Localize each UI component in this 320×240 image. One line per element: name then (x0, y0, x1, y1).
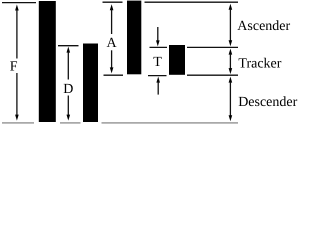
dimension arrow D bottom (points down) (67, 96, 71, 121)
baseline tick below A arrow (104, 74, 124, 76)
label Descender (238, 95, 297, 110)
right dimension line descender zone (double arrow) (229, 77, 233, 122)
svg-text:D: D (63, 82, 73, 97)
dimension arrow D top (points up) (67, 47, 71, 80)
baseline right segment (187, 74, 238, 76)
svg-text:T: T (153, 55, 162, 70)
dimension arrow T bottom outside (points up) (156, 77, 160, 95)
dimension arrow A bottom (points down) (110, 50, 114, 73)
svg-text:Descender: Descender (238, 95, 297, 110)
descender baseline left segment (gray) (2, 122, 34, 124)
ascender line right segment (145, 1, 239, 3)
dimension arrow F bottom (points down) (15, 73, 19, 121)
bar T (tracker/x-height glyph bar) (169, 45, 185, 75)
svg-text:Tracker: Tracker (238, 56, 281, 71)
label A (106, 36, 117, 51)
right dimension line tracker zone (double arrow) (229, 49, 233, 75)
tracker top tick at T (150, 46, 168, 48)
svg-text:Ascender: Ascender (237, 19, 290, 34)
dimension arrow A top (points up) (110, 4, 114, 34)
right dimension line ascender zone (double arrow) (229, 4, 233, 47)
tracker top line right segment (187, 46, 238, 48)
bar F (full height glyph bar) (39, 1, 56, 122)
dimension arrow T top outside (points down) (156, 27, 160, 46)
label F (10, 60, 18, 75)
descender baseline middle segment (gray) (60, 122, 81, 124)
dimension arrow F top (points up) (15, 5, 19, 59)
baseline tick at T (148, 75, 167, 77)
tick line above D arrow (58, 45, 79, 47)
ascender line left segment (2, 2, 36, 4)
svg-text:A: A (106, 36, 117, 51)
label D (63, 82, 73, 97)
label Tracker (238, 56, 281, 71)
bar A (ascent glyph bar) (127, 1, 141, 75)
descender baseline right long segment (gray) (102, 122, 239, 124)
label Ascender (237, 19, 290, 34)
label T (153, 55, 162, 70)
bar D (descender glyph bar) (83, 44, 98, 123)
ascender line middle segment (103, 1, 123, 3)
svg-text:F: F (10, 60, 18, 75)
